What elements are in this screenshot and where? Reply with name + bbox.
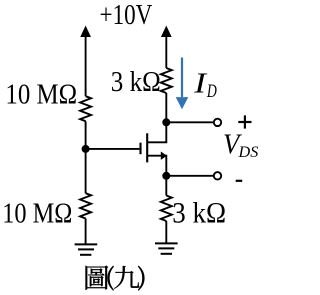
svg-text:I: I [193,69,208,100]
svg-text:DS: DS [238,143,259,161]
svg-text:10 MΩ: 10 MΩ [2,199,72,230]
svg-text:3 kΩ: 3 kΩ [111,66,161,98]
svg-text:+10V: +10V [100,0,153,31]
svg-text:3 kΩ: 3 kΩ [172,196,226,229]
svg-text:D: D [206,82,217,102]
svg-text:10 MΩ: 10 MΩ [5,79,77,110]
